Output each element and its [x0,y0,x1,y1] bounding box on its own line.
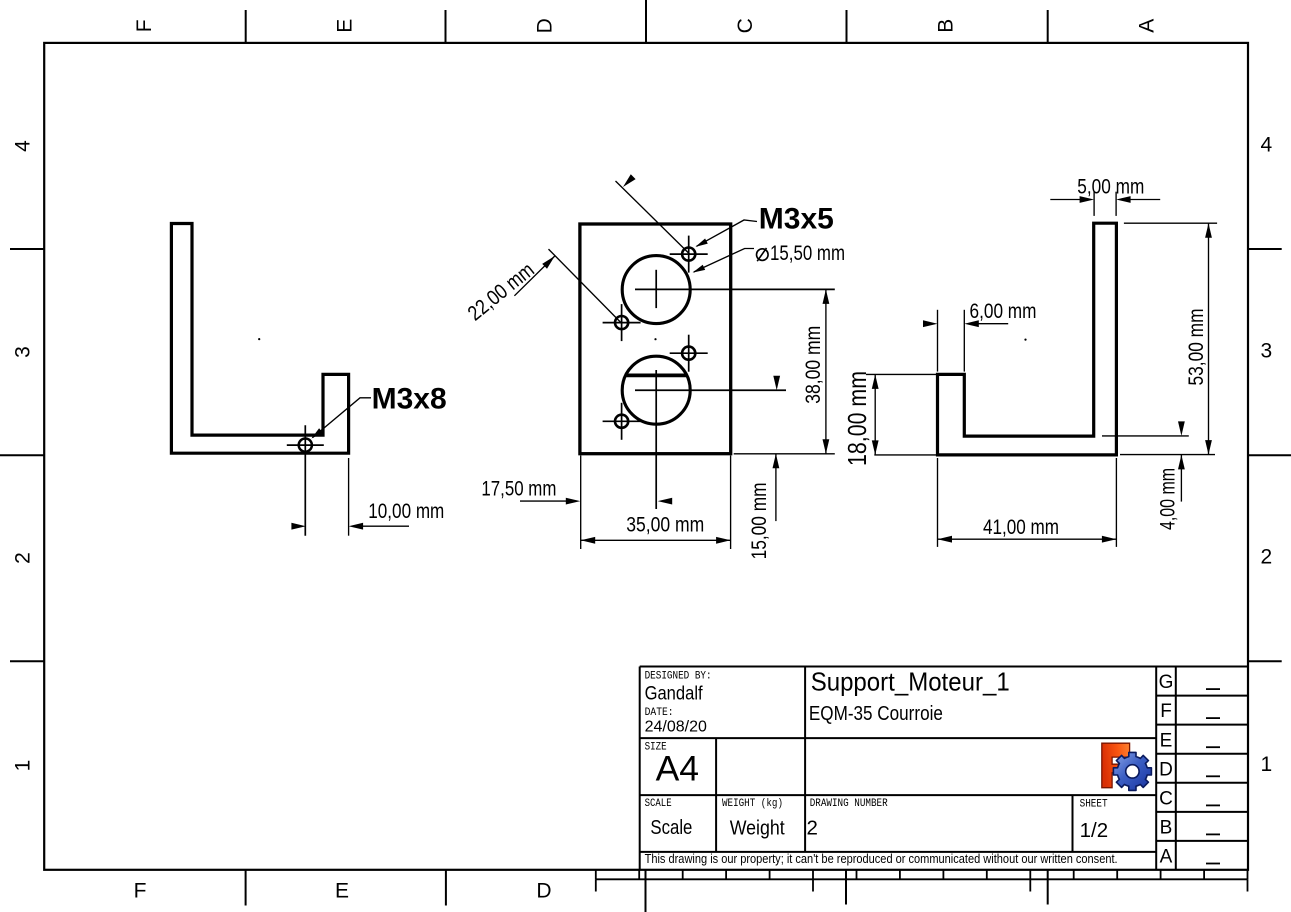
top zone separator ticks [245,10,247,43]
left view bracket outline [171,224,348,454]
title block vertical lines [639,667,641,870]
svg-text:38,00 mm: 38,00 mm [802,326,825,404]
svg-text:SHEET: SHEET [1080,798,1108,810]
FreeCAD logo gear [1113,752,1151,790]
dim 10,00 arrows [291,523,306,530]
svg-text:F: F [1160,701,1172,722]
dim 5,00 dimension lines [1050,199,1080,201]
svg-text:D: D [536,879,551,902]
svg-text:DATE:: DATE: [645,707,674,719]
svg-text:SCALE: SCALE [645,798,672,810]
front view plate outline [580,224,731,454]
top circle centrelines [655,270,657,308]
dim 41,00 dimension line [938,538,1117,540]
svg-text:C: C [1159,789,1173,810]
dim 22,00 dimension tail line [514,256,554,296]
dim 6,00 dimension line [970,323,1008,325]
svg-text:4,00 mm: 4,00 mm [1157,468,1180,530]
svg-text:1/2: 1/2 [1080,819,1109,842]
FreeCAD logo letter F [1102,743,1130,788]
svg-text:1: 1 [1261,753,1273,776]
small hole M3x5 #3 circle [682,347,695,360]
small hole M3x5 #2 crosshair [603,322,641,324]
small hole M3x5 #4 crosshair [603,420,641,422]
svg-text:E: E [1160,730,1173,751]
svg-text:3: 3 [12,346,35,358]
svg-text:2: 2 [807,817,818,840]
svg-text:10,00 mm: 10,00 mm [368,500,444,523]
small hole M3x5 #1 crosshair [670,253,708,255]
dim 35,00 dimension line [581,539,731,541]
bottom zone separator ticks [245,870,247,906]
dim 18,00 dimension line [874,374,876,455]
svg-text:E: E [335,879,349,902]
dim 4,00 inner base extension line [1102,435,1189,437]
svg-text:M3x8: M3x8 [372,382,447,415]
label M3x5 leader line [697,220,758,246]
dim 38,00 arrows [823,289,830,304]
label M3x8 leader line [313,398,372,438]
revision placeholder dashes [1206,688,1220,690]
svg-text:Weight: Weight [730,817,785,840]
dim diameter 15,50 symbol [757,249,769,261]
hole M3x8 crosshair [287,444,324,446]
svg-text:Support_Moteur_1: Support_Moteur_1 [811,667,1010,697]
dim 17,50 arrows [566,498,581,505]
front view centre mark dot [654,338,656,340]
title block horizontal lines [640,666,1248,668]
svg-text:D: D [534,18,557,33]
svg-text:35,00 mm: 35,00 mm [626,514,704,537]
dim 53,00 dimension line [1208,223,1210,454]
svg-text:2: 2 [1261,545,1273,568]
svg-text:15,00 mm: 15,00 mm [748,482,771,559]
dim 22,00 arrows [542,256,555,269]
svg-text:6,00 mm: 6,00 mm [970,300,1037,323]
dim 41,00 extension lines [937,458,939,547]
left view centre mark dot [258,338,260,340]
dim 10,00 extension line (wall) [348,458,350,536]
dim 53,00 top extension line [1124,222,1217,224]
dim 6,00 arrows [923,320,938,327]
svg-text:WEIGHT (kg): WEIGHT (kg) [722,798,783,810]
dim 6,00 extension lines [937,310,939,372]
dim 22,00 extension line from hole 2 [549,249,622,323]
svg-text:A: A [1136,19,1159,33]
svg-text:This drawing is our property;: This drawing is our property; it can't b… [645,852,1118,866]
svg-text:5,00 mm: 5,00 mm [1077,176,1144,199]
dim 18,00 bottom extension line [874,454,936,456]
svg-text:41,00 mm: 41,00 mm [983,516,1059,539]
right view bracket outline [938,223,1117,455]
revision table row lines [1156,695,1248,697]
svg-text:53,00 mm: 53,00 mm [1185,309,1208,386]
dim 38,00 dimension line [825,289,827,453]
svg-text:17,50 mm: 17,50 mm [481,478,556,501]
svg-text:4: 4 [12,140,35,152]
dim 5,00 extension lines [1093,192,1095,216]
big hole top circle [622,256,690,324]
dim 18,00 arrows [872,374,879,389]
bottom circle centrelines [655,370,657,509]
dim 38,00 bottom extension line [734,453,835,455]
dim 35,00 arrows [581,537,596,544]
svg-text:M3x5: M3x5 [759,203,834,236]
dim 35,00 extension lines [580,456,582,550]
left zone separator ticks [10,248,44,250]
small hole M3x5 #2 circle [615,316,628,329]
svg-text:3: 3 [1261,339,1273,362]
dim 15,00 arrows [773,376,780,391]
svg-text:24/08/20: 24/08/20 [645,719,707,736]
dim diameter 15,50 leader line [694,249,754,273]
big hole bottom circle [622,356,690,424]
dim 22,00 extension line from hole 1 [616,181,690,254]
dim 5,00 arrows [1080,196,1095,203]
dim 4,00 arrows [1178,421,1185,436]
svg-text:2: 2 [12,552,35,564]
svg-text:DESIGNED BY:: DESIGNED BY: [645,671,712,683]
svg-text:F: F [134,879,147,902]
dim 18,00 top extension line [866,373,936,375]
dim 17,50 dimension line [520,500,566,502]
svg-text:15,50 mm: 15,50 mm [770,242,845,265]
svg-text:Scale: Scale [650,816,692,839]
svg-text:A: A [1160,847,1173,868]
svg-text:B: B [935,19,958,33]
svg-text:D: D [1159,759,1173,780]
dim 53,00 arrows [1205,223,1212,238]
svg-text:EQM-35 Courroie: EQM-35 Courroie [809,702,943,725]
svg-text:A4: A4 [656,748,699,788]
metric ruler cell dividers [595,870,597,880]
bottom hole flat chord [626,373,687,377]
svg-text:E: E [333,19,356,33]
dim 15,00 dimension line [775,454,777,521]
svg-text:1: 1 [12,760,35,772]
svg-text:4: 4 [1261,133,1273,156]
svg-text:DRAWING NUMBER: DRAWING NUMBER [810,798,888,810]
right zone separator ticks [1248,248,1282,250]
dim 4,00 dimension line [1180,455,1182,502]
small hole M3x5 #3 crosshair [670,352,708,354]
svg-text:G: G [1159,672,1174,693]
metric reference ruler bottom line [596,878,1248,880]
hole M3x8 circle [299,439,312,452]
svg-text:F: F [133,19,156,32]
small hole M3x5 #4 circle [615,415,628,428]
svg-text:C: C [734,18,757,33]
metric ruler long graduation ticks [595,879,597,891]
small hole M3x5 #1 circle [682,248,695,261]
svg-text:Gandalf: Gandalf [645,684,704,705]
svg-text:18,00 mm: 18,00 mm [842,371,872,466]
dim 41,00 arrows [938,536,953,543]
dim 10,00 dimension line [355,525,410,527]
dim 53,00 bottom extension line [1120,454,1215,456]
svg-text:B: B [1160,818,1173,839]
right view centre mark dot [1024,339,1026,341]
